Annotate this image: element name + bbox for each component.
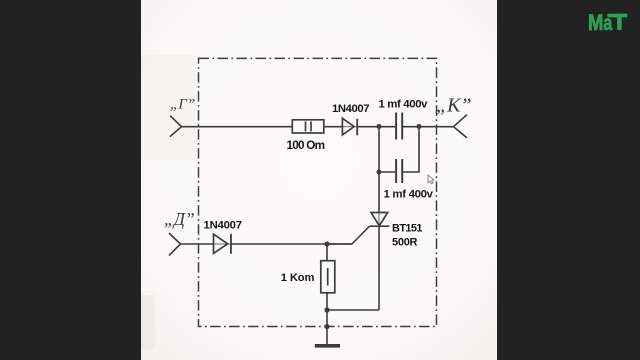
wire: R1 to diode D1: [324, 126, 342, 128]
enclosure dash-dot border: [199, 58, 437, 326]
svg-text:100 Om: 100 Om: [287, 139, 326, 152]
node A junction: [377, 124, 382, 129]
svg-text:„Г”: „Г”: [170, 97, 195, 113]
terminal G (input „Г"): [170, 116, 182, 137]
wire: D2 to node D: [231, 243, 352, 245]
wire: node E to thyristor cathode line: [327, 309, 379, 311]
svg-text:„К”: „К”: [436, 95, 472, 117]
capacitor C2 1 mf 400v (bottom): [396, 159, 402, 183]
label „Д": [164, 209, 195, 229]
wire: D1 to node A: [357, 126, 396, 128]
label „Г": [170, 97, 195, 113]
label BT151 500R: [392, 222, 423, 248]
node D junction: [324, 241, 329, 246]
wire: thyristor gate to node D: [327, 226, 370, 244]
MaT logo: [588, 12, 627, 36]
wire: terminal D to diode D2: [180, 243, 213, 245]
wire: node F to ground: [326, 327, 328, 345]
node E junction: [324, 307, 329, 312]
capacitor C1 1 mf 400v (top): [396, 113, 402, 140]
mouse cursor: [428, 175, 434, 184]
svg-text:1 Kom: 1 Kom: [281, 272, 315, 284]
svg-text:1N4007: 1N4007: [204, 220, 243, 232]
thyristor Q1 BT151: [370, 213, 390, 227]
terminal K (output „К"): [454, 115, 467, 138]
label „К": [436, 95, 472, 117]
svg-text:„Д”: „Д”: [164, 209, 195, 229]
resistor R2 1 Kom: [321, 261, 335, 293]
value label 100 Om: [287, 139, 326, 152]
wire: node E down to node F on border: [326, 310, 328, 327]
svg-text:1 mf 400v: 1 mf 400v: [384, 189, 434, 201]
wire: C1 to terminal K: [402, 126, 453, 128]
svg-text:500R: 500R: [392, 237, 418, 249]
terminal D (input „Д"): [169, 233, 180, 256]
label 1 mf 400v (top): [379, 99, 429, 111]
node B junction: [417, 124, 422, 129]
wire: C2 up to node B: [402, 127, 419, 172]
diode D1 1N4007 (top): [342, 118, 357, 135]
node F junction on enclosure: [324, 324, 329, 329]
label 1N4007 (bottom): [204, 220, 243, 232]
wire: node A down to node C: [378, 127, 380, 172]
svg-text:1N4007: 1N4007: [332, 103, 370, 115]
wire: terminal G to resistor R1: [182, 126, 293, 128]
node C junction: [377, 170, 382, 175]
svg-text:М: М: [588, 12, 603, 36]
label 1 mf 400v (bottom): [384, 189, 434, 201]
paper: [141, 0, 497, 360]
resistor R1 100 Om: [292, 120, 324, 133]
svg-text:BT151: BT151: [392, 222, 423, 234]
svg-text:1 mf 400v: 1 mf 400v: [379, 99, 429, 111]
wire: node C to capacitor C2: [379, 171, 396, 173]
wire: node D down to resistor R2: [326, 244, 328, 261]
ground: [315, 344, 340, 348]
wire: R2 down to node E: [326, 293, 328, 310]
wire: node C down to thyristor U1: [378, 172, 380, 213]
diode D2 1N4007 (bottom): [214, 234, 232, 254]
wire: thyristor cathode down: [378, 226, 380, 310]
label 1N4007 (top): [332, 103, 370, 115]
value label 1 Kom: [281, 272, 315, 284]
